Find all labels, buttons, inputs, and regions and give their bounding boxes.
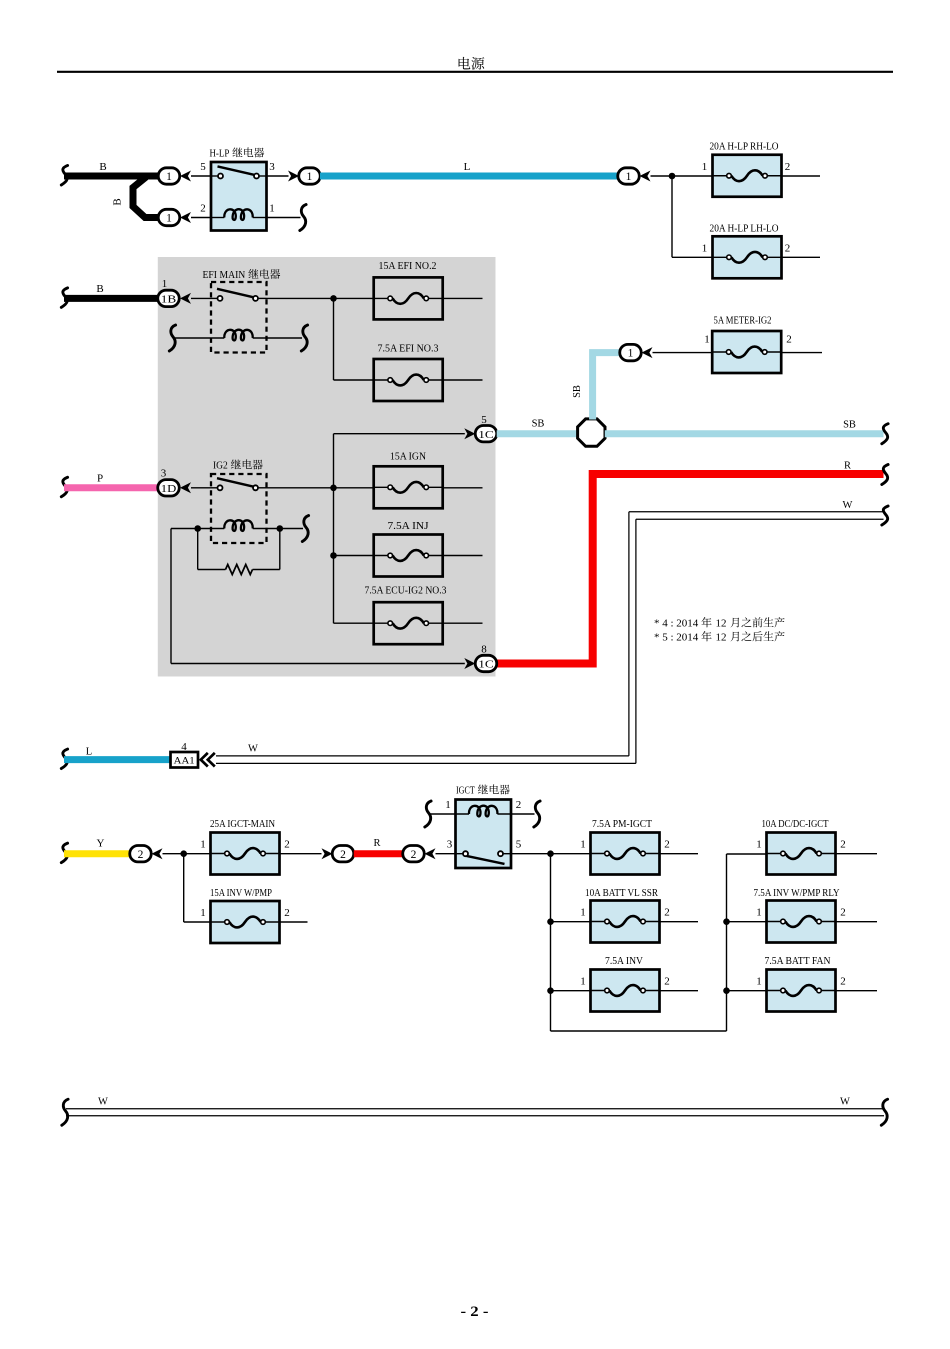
svg-text:20A H-LP RH-LO: 20A H-LP RH-LO bbox=[710, 142, 779, 153]
svg-text:25A IGCT-MAIN: 25A IGCT-MAIN bbox=[210, 819, 275, 830]
svg-text:4: 4 bbox=[181, 741, 187, 753]
svg-text:W: W bbox=[840, 1097, 850, 1108]
svg-text:15A INV W/PMP: 15A INV W/PMP bbox=[210, 888, 272, 899]
svg-text:1: 1 bbox=[702, 161, 708, 173]
svg-text:IG2: IG2 bbox=[213, 461, 228, 472]
svg-text:P: P bbox=[97, 473, 103, 485]
svg-text:IGCT: IGCT bbox=[456, 786, 475, 797]
svg-text:1: 1 bbox=[626, 171, 632, 183]
svg-text:W: W bbox=[843, 500, 853, 511]
svg-text:2: 2 bbox=[138, 849, 144, 861]
svg-text:7.5A INV: 7.5A INV bbox=[605, 956, 644, 967]
svg-text:12: 12 bbox=[716, 618, 727, 630]
svg-text:2: 2 bbox=[840, 907, 846, 919]
svg-text:L: L bbox=[464, 161, 471, 173]
svg-text:10A DC/DC-IGCT: 10A DC/DC-IGCT bbox=[762, 819, 829, 830]
svg-text:SB: SB bbox=[572, 385, 583, 398]
svg-text:AA1: AA1 bbox=[174, 756, 195, 766]
svg-text:15A IGN: 15A IGN bbox=[390, 452, 426, 463]
svg-text:2: 2 bbox=[200, 203, 206, 215]
svg-text:1C: 1C bbox=[478, 659, 494, 671]
svg-text:H-LP: H-LP bbox=[210, 149, 230, 160]
svg-text:1D: 1D bbox=[161, 483, 177, 495]
svg-text:1: 1 bbox=[307, 171, 313, 183]
svg-text:W: W bbox=[248, 744, 258, 755]
svg-text:1: 1 bbox=[580, 907, 586, 919]
svg-text:1: 1 bbox=[445, 799, 451, 811]
svg-text:2: 2 bbox=[664, 907, 670, 919]
svg-text:R: R bbox=[373, 838, 380, 849]
svg-text:7.5A ECU-IG2 NO.3: 7.5A ECU-IG2 NO.3 bbox=[365, 586, 447, 597]
svg-text:2: 2 bbox=[411, 849, 417, 861]
svg-text:1: 1 bbox=[756, 839, 762, 851]
svg-text:5: 5 bbox=[200, 161, 206, 173]
svg-text:2: 2 bbox=[840, 976, 846, 988]
svg-text:7.5A BATT FAN: 7.5A BATT FAN bbox=[765, 956, 831, 967]
svg-text:L: L bbox=[86, 747, 92, 758]
svg-text:1B: 1B bbox=[161, 294, 177, 306]
svg-text:3: 3 bbox=[269, 161, 275, 173]
svg-text:7.5A INV W/PMP RLY: 7.5A INV W/PMP RLY bbox=[754, 888, 840, 899]
svg-text:15A EFI NO.2: 15A EFI NO.2 bbox=[379, 261, 437, 272]
svg-text:1: 1 bbox=[166, 213, 172, 225]
svg-text:B: B bbox=[96, 283, 103, 295]
svg-text:1: 1 bbox=[580, 976, 586, 988]
svg-text:2: 2 bbox=[284, 839, 290, 851]
svg-text:2: 2 bbox=[786, 334, 792, 346]
svg-text:1: 1 bbox=[704, 334, 710, 346]
svg-text:1: 1 bbox=[162, 278, 168, 290]
svg-text:12: 12 bbox=[716, 632, 727, 644]
svg-text:2: 2 bbox=[284, 907, 290, 919]
svg-text:3: 3 bbox=[161, 468, 167, 480]
svg-text:1: 1 bbox=[756, 976, 762, 988]
svg-text:W: W bbox=[98, 1097, 108, 1108]
svg-text:1: 1 bbox=[702, 243, 708, 255]
svg-text:8: 8 bbox=[481, 644, 487, 656]
svg-text:5: 5 bbox=[481, 414, 487, 426]
svg-text:3: 3 bbox=[447, 839, 453, 851]
svg-text:B: B bbox=[112, 198, 124, 205]
svg-text:1: 1 bbox=[269, 203, 275, 215]
svg-text:7.5A INJ: 7.5A INJ bbox=[388, 521, 429, 532]
svg-text:1: 1 bbox=[166, 171, 172, 183]
svg-text:* 4 : 2014: * 4 : 2014 bbox=[654, 618, 701, 630]
svg-text:1: 1 bbox=[628, 348, 634, 360]
svg-text:10A BATT VL SSR: 10A BATT VL SSR bbox=[585, 888, 658, 899]
svg-text:7.5A PM-IGCT: 7.5A PM-IGCT bbox=[592, 819, 652, 830]
svg-text:1C: 1C bbox=[478, 429, 494, 441]
svg-text:2: 2 bbox=[516, 799, 522, 811]
svg-text:2: 2 bbox=[340, 849, 346, 861]
svg-text:* 5 : 2014: * 5 : 2014 bbox=[654, 632, 701, 644]
svg-text:R: R bbox=[844, 461, 851, 472]
svg-text:- 2 -: - 2 - bbox=[461, 1304, 489, 1320]
svg-text:1: 1 bbox=[200, 839, 206, 851]
svg-text:SB: SB bbox=[532, 419, 545, 430]
svg-text:1: 1 bbox=[756, 907, 762, 919]
svg-text:Y: Y bbox=[97, 838, 105, 850]
svg-text:7.5A EFI NO.3: 7.5A EFI NO.3 bbox=[378, 344, 439, 355]
svg-text:1: 1 bbox=[580, 839, 586, 851]
svg-text:2: 2 bbox=[785, 243, 791, 255]
svg-text:5A METER-IG2: 5A METER-IG2 bbox=[714, 316, 772, 327]
svg-text:2: 2 bbox=[840, 839, 846, 851]
svg-text:2: 2 bbox=[785, 161, 791, 173]
svg-text:EFI MAIN: EFI MAIN bbox=[203, 270, 246, 281]
svg-text:1: 1 bbox=[200, 907, 206, 919]
svg-text:B: B bbox=[99, 161, 106, 173]
svg-text:SB: SB bbox=[843, 420, 856, 431]
svg-text:5: 5 bbox=[516, 839, 522, 851]
svg-text:2: 2 bbox=[664, 839, 670, 851]
svg-text:2: 2 bbox=[664, 976, 670, 988]
svg-text:20A H-LP LH-LO: 20A H-LP LH-LO bbox=[710, 224, 779, 235]
